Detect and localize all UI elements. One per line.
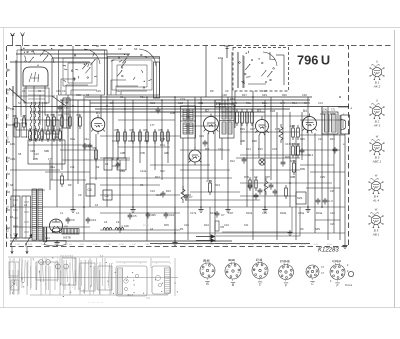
wire — [13, 189, 45, 191]
svg-text:S4: S4 — [44, 101, 48, 105]
wire — [236, 157, 300, 159]
label L3 — [60, 211, 63, 215]
antenna 1 — [11, 33, 15, 46]
label C16 — [272, 147, 277, 151]
label 1#S — [10, 142, 15, 146]
label R8a — [120, 169, 125, 173]
svg-text:5B: 5B — [51, 113, 55, 117]
wire — [234, 91, 236, 128]
svg-text:C28: C28 — [222, 93, 227, 97]
wire — [200, 97, 202, 207]
resistor 13 — [45, 113, 50, 129]
wire — [295, 137, 297, 240]
wire — [90, 177, 232, 179]
tube B5 detector — [189, 147, 202, 165]
capacitor 495 — [146, 212, 157, 219]
resistor R4 — [77, 113, 82, 129]
resistor — [236, 109, 239, 126]
capacitor — [254, 193, 259, 200]
junction — [200, 102, 202, 104]
tube B1 dome envelope — [23, 67, 48, 86]
wire — [310, 171, 345, 173]
wire — [315, 219, 340, 221]
pinout B1 AK2 — [369, 60, 384, 89]
bottom bus 2 — [150, 243, 310, 245]
label R4B — [170, 111, 175, 115]
junction — [106, 105, 108, 107]
svg-text:C20: C20 — [270, 109, 276, 113]
choke label — [124, 224, 129, 228]
svg-text:R2: R2 — [59, 113, 63, 117]
svg-text:S#B: S#B — [44, 149, 49, 153]
resistor R18 — [290, 124, 296, 140]
wire — [51, 58, 53, 180]
svg-text:#: # — [57, 258, 59, 260]
component box — [45, 120, 59, 134]
wire — [300, 149, 340, 151]
capacitor C — [300, 148, 305, 155]
svg-text:B1: B1 — [96, 111, 100, 115]
ballast resistor AK 565TB — [62, 224, 79, 239]
schematic dashed border — [7, 46, 349, 247]
label C17a — [190, 211, 197, 215]
svg-text:R7a: R7a — [160, 143, 165, 147]
svg-text:17-20-10: 17-20-10 — [280, 261, 290, 263]
label 4TB — [10, 123, 15, 127]
component box — [14, 123, 27, 137]
svg-text:AK 2: AK 2 — [373, 85, 381, 89]
resistor R — [154, 129, 157, 144]
mains coil L2 box — [22, 196, 31, 238]
svg-text:#: # — [124, 263, 126, 265]
label R21 — [330, 137, 335, 141]
capacitor C — [203, 140, 208, 147]
tuning indicator — [259, 159, 265, 165]
junction — [161, 99, 163, 101]
svg-text:C25: C25 — [184, 223, 189, 227]
svg-text:d: d — [343, 127, 345, 131]
svg-text:R5a: R5a — [246, 101, 251, 105]
svg-text:R6a: R6a — [128, 139, 133, 143]
svg-text:13B: 13B — [216, 101, 221, 105]
svg-text:#: # — [170, 263, 172, 265]
svg-text:1.0M: 1.0M — [67, 244, 72, 246]
svg-text:0.07: 0.07 — [132, 244, 137, 246]
svg-text:47B: 47B — [140, 151, 145, 155]
svg-text:#: # — [45, 284, 47, 286]
svg-text:C4B: C4B — [21, 114, 27, 118]
svg-text:#: # — [140, 263, 142, 265]
label R22 — [285, 155, 290, 159]
junction — [321, 206, 323, 208]
label C#V — [320, 175, 325, 179]
wire — [20, 46, 22, 115]
wire — [12, 86, 14, 207]
svg-text:C#S: C#S — [262, 244, 267, 246]
capacitor C — [156, 107, 161, 114]
wire — [240, 131, 300, 133]
wire — [16, 95, 55, 97]
capacitor C9 — [66, 217, 75, 224]
wire — [276, 112, 278, 240]
wire — [100, 157, 130, 159]
label TEL — [10, 107, 15, 111]
wire — [44, 86, 46, 115]
svg-text:R4B: R4B — [170, 111, 175, 115]
svg-text:AL 4: AL 4 — [372, 199, 379, 203]
wire — [185, 125, 218, 127]
coil L9 — [115, 220, 124, 230]
svg-text:C7: C7 — [321, 266, 325, 269]
wire — [146, 97, 148, 207]
label R3a — [70, 137, 75, 141]
resistor R6 — [130, 128, 135, 144]
label ETA — [218, 56, 223, 60]
capacitor C15 — [156, 191, 165, 198]
label c — [343, 113, 345, 116]
svg-text:R20: R20 — [300, 137, 305, 141]
wire — [344, 134, 346, 243]
svg-text:S6: S6 — [65, 101, 69, 105]
svg-text:S5: S5 — [86, 93, 90, 97]
wire — [190, 191, 240, 193]
label C# — [78, 193, 82, 197]
wire — [106, 50, 108, 207]
wire — [89, 100, 91, 207]
svg-text:S#1: S#1 — [186, 115, 191, 119]
wire — [167, 130, 169, 163]
svg-text:LS: LS — [7, 183, 10, 186]
wire — [67, 95, 69, 180]
terminal TEL — [7, 113, 10, 118]
svg-text:10K: 10K — [41, 244, 45, 246]
resistor R5b — [215, 221, 225, 231]
svg-text:C#V: C#V — [320, 175, 325, 179]
svg-text:•: • — [7, 156, 8, 158]
wire — [301, 112, 303, 160]
junction — [307, 206, 309, 208]
svg-text:R4a: R4a — [50, 165, 55, 169]
svg-text:R15: R15 — [258, 147, 263, 151]
ground — [54, 240, 59, 245]
label C# — [118, 47, 122, 51]
svg-text:R22: R22 — [285, 155, 290, 159]
wire — [240, 112, 242, 145]
svg-text:TA: TA — [7, 92, 10, 95]
label C4a — [84, 137, 89, 141]
wire — [100, 135, 180, 137]
label L# — [10, 215, 13, 219]
junction — [174, 96, 176, 98]
transformer core bars — [43, 227, 47, 242]
wire — [16, 53, 130, 55]
svg-text:PU: PU — [7, 159, 10, 163]
svg-text:B4: B4 — [303, 109, 307, 113]
wire — [240, 154, 310, 156]
label R#B — [290, 175, 295, 179]
terminal TA — [7, 92, 10, 95]
wire — [161, 100, 163, 180]
svg-text:R8: R8 — [159, 128, 163, 132]
ground — [198, 207, 203, 212]
wire — [300, 119, 345, 121]
junction — [264, 206, 266, 208]
wire — [25, 86, 27, 125]
wire — [174, 207, 176, 243]
label R5a — [246, 101, 251, 105]
terminal label — [7, 190, 11, 192]
svg-text:R15: R15 — [244, 175, 249, 179]
label R28 — [76, 93, 81, 97]
svg-text:C22: C22 — [330, 211, 335, 215]
label d — [343, 127, 345, 131]
svg-text:C#: C# — [330, 189, 334, 193]
wire — [100, 194, 180, 196]
svg-text:1/4+: 1/4+ — [143, 223, 149, 227]
label S10 — [160, 169, 165, 173]
wire — [95, 134, 97, 180]
label C3 — [62, 89, 66, 93]
wire — [28, 144, 90, 146]
svg-text:C18: C18 — [228, 211, 233, 215]
svg-text:R22: R22 — [295, 142, 301, 146]
tuning section S3 contacts — [111, 54, 152, 88]
wire — [264, 100, 266, 207]
tuning section S2 contacts — [63, 52, 97, 81]
label R12 — [155, 175, 160, 179]
capacitor C — [248, 183, 253, 190]
svg-text:W: W — [375, 174, 378, 178]
svg-text:~ . ~~ -- ~ - ~~: ~ . ~~ -- ~ - ~~ — [88, 301, 104, 304]
svg-text:L6: L6 — [104, 220, 108, 224]
label C20 — [270, 109, 276, 113]
resistor R16 zigzag — [279, 124, 283, 143]
section S2 arc — [84, 49, 100, 64]
svg-text:495: 495 — [151, 213, 156, 217]
svg-text:•: • — [7, 190, 8, 192]
section S1 box — [17, 50, 55, 95]
heater bus — [45, 232, 345, 234]
svg-text:#: # — [70, 260, 72, 262]
label C12 — [218, 147, 223, 151]
svg-text:•: • — [7, 88, 8, 90]
svg-text:#: # — [72, 287, 74, 289]
mains coil L1 box — [11, 196, 20, 238]
ground — [287, 230, 292, 235]
svg-text:17-20-10: 17-20-10 — [332, 261, 342, 263]
svg-text:4700: 4700 — [327, 244, 333, 246]
resistor R — [124, 129, 127, 144]
svg-text:C6: C6 — [120, 95, 124, 99]
bus wire — [95, 108, 290, 110]
svg-text:R13: R13 — [207, 179, 213, 183]
svg-text:R#: R# — [300, 227, 304, 231]
socket B6 underside — [330, 260, 354, 287]
label 1# — [150, 227, 153, 231]
svg-text:S8: S8 — [18, 152, 22, 156]
wire — [194, 97, 196, 148]
svg-text:C17: C17 — [285, 142, 290, 146]
wire — [333, 134, 335, 233]
svg-text:S10: S10 — [160, 169, 165, 173]
output transformer T3 — [322, 107, 349, 134]
svg-text:#: # — [33, 260, 35, 262]
svg-text:C24: C24 — [224, 223, 229, 227]
svg-text:R12: R12 — [230, 159, 235, 163]
wire — [77, 100, 79, 130]
label S# — [134, 47, 138, 51]
svg-text:C14: C14 — [318, 101, 323, 105]
label 47B — [140, 151, 145, 155]
rectifier tube B6 — [50, 219, 63, 233]
svg-text:C#: C# — [78, 193, 82, 197]
svg-text:L3: L3 — [60, 211, 63, 215]
label C20a — [298, 211, 305, 215]
section S3 arc — [139, 49, 156, 66]
label R#9 — [300, 167, 305, 171]
label R23 — [166, 189, 171, 193]
junction — [339, 96, 341, 98]
svg-text:C29: C29 — [96, 89, 101, 93]
svg-text:#: # — [156, 263, 158, 265]
label R5a — [140, 95, 145, 99]
junction — [132, 206, 134, 208]
tube B4 — [302, 114, 316, 134]
svg-text:C13: C13 — [45, 236, 50, 240]
wire — [45, 171, 90, 173]
svg-text:#: # — [30, 284, 32, 286]
svg-text:C9a: C9a — [54, 135, 59, 139]
section S2 box — [59, 50, 105, 95]
svg-text:C8: C8 — [88, 188, 92, 192]
label R4a — [50, 165, 55, 169]
svg-text:W: W — [376, 135, 379, 139]
svg-text:C#: C# — [118, 47, 122, 51]
svg-text:R21: R21 — [330, 137, 335, 141]
mains switch arrow 2 — [25, 234, 32, 247]
capacitor C — [333, 147, 338, 154]
wire — [77, 130, 79, 184]
dial cord arrow 2 — [196, 239, 215, 242]
svg-text:#: # — [97, 263, 99, 265]
socket B4 underside — [279, 260, 294, 287]
wire — [52, 57, 160, 59]
wire — [282, 100, 284, 160]
section S3 nested wires — [111, 80, 147, 95]
label R1 — [38, 89, 42, 93]
svg-text:K12283: K12283 — [318, 248, 339, 254]
label R13 — [215, 183, 220, 187]
svg-text:S1B: S1B — [178, 101, 183, 105]
svg-text:C4L: C4L — [323, 109, 328, 112]
wire — [209, 207, 211, 241]
svg-text:S4: S4 — [304, 101, 308, 105]
junction — [214, 240, 216, 242]
label R16a — [246, 211, 253, 215]
label C11 — [70, 165, 75, 169]
svg-text:2.5: 2.5 — [52, 231, 56, 234]
label C14 — [246, 147, 251, 151]
label a — [10, 198, 12, 201]
svg-text:C#S: C#S — [171, 244, 176, 246]
wire — [300, 164, 334, 166]
capacitor C — [88, 143, 93, 150]
svg-text:1#: 1# — [150, 227, 153, 231]
svg-text:20-10: 20-10 — [228, 259, 235, 262]
label R11 — [205, 147, 210, 151]
svg-text:C1S: C1S — [150, 101, 155, 105]
bus wire — [60, 99, 310, 101]
svg-text:C26: C26 — [302, 93, 307, 97]
svg-text:TEL: TEL — [10, 107, 15, 111]
shield dash — [7, 228, 31, 238]
terminal label — [7, 88, 11, 90]
component frame C — [104, 158, 112, 170]
svg-text:R#B: R#B — [288, 244, 293, 246]
svg-text:C1S: C1S — [180, 97, 185, 101]
wire — [83, 95, 85, 240]
svg-text:C15: C15 — [156, 193, 162, 197]
label R12 — [230, 159, 235, 163]
resistor R7 — [144, 128, 149, 144]
pilot lamp — [52, 228, 62, 234]
svg-text:U: U — [376, 60, 379, 64]
ground — [342, 243, 347, 248]
svg-text:1#B: 1#B — [240, 139, 245, 143]
resistor — [35, 128, 38, 142]
wire — [221, 138, 223, 160]
coil L12 — [63, 98, 70, 128]
svg-text:B3: B3 — [257, 109, 261, 113]
svg-text:S11: S11 — [244, 223, 249, 227]
faint caption — [88, 301, 104, 304]
terminal PU — [7, 159, 10, 163]
label B0a — [262, 101, 267, 105]
svg-text:R18a: R18a — [280, 211, 287, 215]
faint pencil mark — [143, 223, 149, 227]
terminal label — [7, 208, 11, 210]
chassis layout drawing — [8, 256, 178, 301]
svg-text:•: • — [7, 226, 8, 228]
svg-text:C1B: C1B — [198, 101, 203, 105]
label R#2 — [252, 139, 257, 143]
capacitor C7b — [215, 211, 225, 218]
wire — [21, 49, 107, 51]
svg-text:S#: S# — [10, 183, 14, 187]
svg-text:1#: 1# — [95, 203, 98, 207]
svg-text:4#B: 4#B — [164, 151, 169, 155]
page right edge — [394, 30, 396, 308]
drawing number K12283 — [318, 248, 339, 254]
svg-text:F: F — [336, 284, 339, 288]
svg-text:C17a: C17a — [190, 211, 197, 215]
svg-text:R#B: R#B — [28, 244, 33, 246]
svg-text:R4S: R4S — [330, 112, 335, 116]
label C6 — [120, 95, 124, 99]
socket pin labels — [203, 259, 342, 263]
capacitor C16 — [164, 212, 175, 219]
label R15 — [244, 175, 249, 179]
wire — [118, 146, 170, 148]
label C1S — [180, 97, 185, 101]
wire — [180, 115, 310, 117]
svg-text:C11: C11 — [70, 165, 75, 169]
svg-text:ABC 1: ABC 1 — [372, 160, 382, 164]
label 1T7 — [150, 123, 155, 127]
resistor — [246, 109, 249, 126]
label R14a — [210, 211, 217, 215]
svg-text:1TB: 1TB — [275, 127, 280, 131]
